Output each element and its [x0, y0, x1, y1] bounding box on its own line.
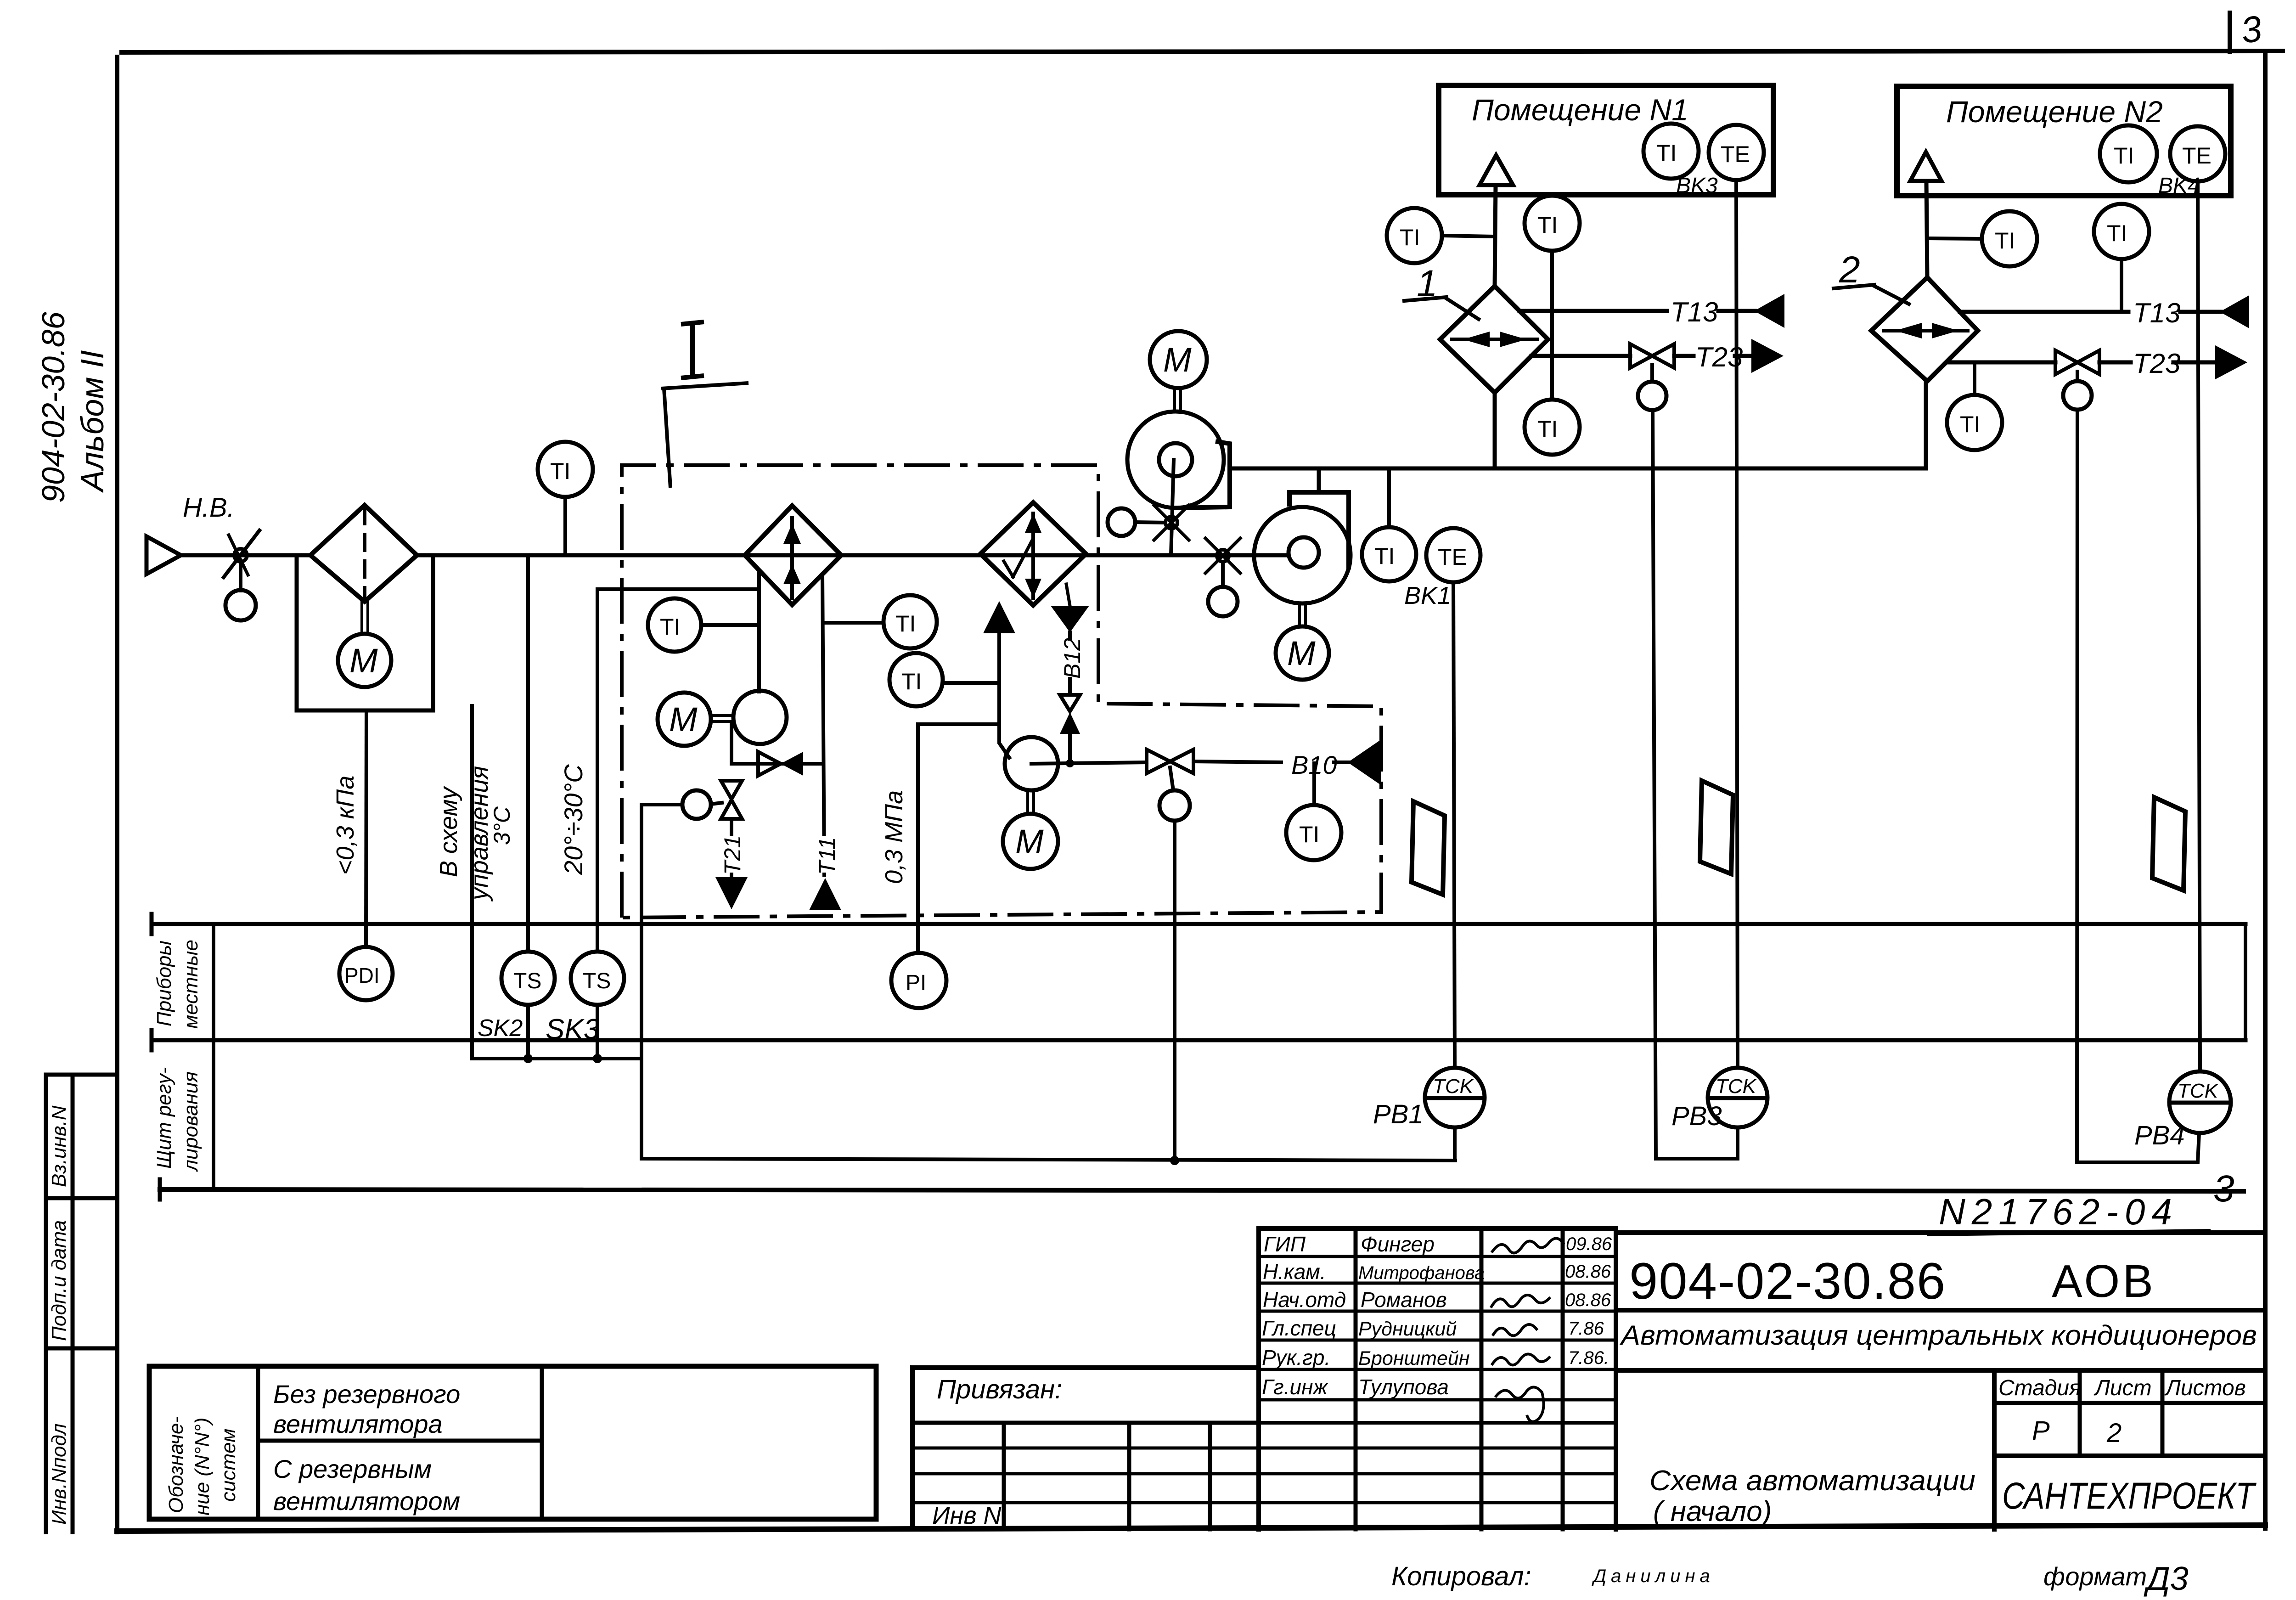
- svg-text:вентилятора: вентилятора: [273, 1409, 443, 1438]
- svg-text:20°÷30°C: 20°÷30°C: [559, 764, 588, 875]
- svg-text:Вз.инв.N: Вз.инв.N: [48, 1105, 70, 1187]
- svg-text:TI: TI: [1960, 411, 1980, 437]
- svg-text:08.86: 08.86: [1565, 1290, 1611, 1310]
- sampling parallelogram 2: [1700, 781, 1733, 874]
- svg-text:TS: TS: [513, 969, 541, 993]
- svg-text:лирования: лирования: [180, 1071, 202, 1172]
- svg-text:TCK: TCK: [1433, 1075, 1474, 1098]
- node T23 arrow unit1: [1751, 339, 1784, 373]
- wire return duct top line: [1230, 381, 1926, 468]
- wire BK3 sensor line: [1736, 180, 1738, 1068]
- svg-text:Привязан:: Привязан:: [937, 1375, 1062, 1404]
- svg-text:Подп.и дата: Подп.и дата: [48, 1220, 70, 1341]
- svg-text:Д3: Д3: [2144, 1561, 2189, 1597]
- svg-text:TI: TI: [550, 458, 570, 484]
- instrument TI supply air r1 lower: [1525, 400, 1580, 455]
- svg-text:Стадия: Стадия: [1998, 1376, 2081, 1400]
- unit I boundary dash-dot: [622, 465, 1381, 918]
- instrument TE room2: [2170, 126, 2225, 181]
- instrument PI: [891, 953, 946, 1008]
- instrument TI supply air r1 upper: [1525, 196, 1580, 251]
- svg-text:SK2: SK2: [478, 1015, 523, 1042]
- signature table: [1256, 1228, 1261, 1529]
- svg-text:Лист: Лист: [2093, 1376, 2152, 1400]
- right title block: [1616, 1230, 2265, 1235]
- valve T23-2 actuator circle: [2076, 372, 2079, 381]
- instrument TI room2: [2100, 125, 2157, 182]
- svg-text:09.86: 09.86: [1566, 1234, 1612, 1254]
- svg-text:T11: T11: [814, 837, 840, 875]
- svg-text:T13: T13: [2133, 298, 2180, 328]
- svg-text:TI: TI: [1995, 228, 2015, 254]
- svg-text:TCK: TCK: [2178, 1080, 2219, 1102]
- svg-text:местные: местные: [180, 940, 202, 1029]
- svg-text:Копировал:: Копировал:: [1391, 1561, 1531, 1591]
- band label divider: [212, 924, 215, 1189]
- svg-text:TI: TI: [901, 669, 922, 694]
- wire to control circuit: [472, 706, 642, 1059]
- damper spray symbol on duct: [1217, 550, 1229, 562]
- table обозначение систем: [149, 1366, 876, 1519]
- instrument TS SK2: [501, 952, 555, 1005]
- wire SK2 sensor line: [526, 555, 530, 952]
- valve B10: [1147, 749, 1170, 773]
- heat exchanger (air heater) diamond: [745, 506, 841, 605]
- node T13 arrow unit2: [2220, 295, 2249, 328]
- svg-text:TI: TI: [2114, 143, 2134, 169]
- svg-text:<0,3 кПа: <0,3 кПа: [332, 776, 359, 875]
- wire T21 line: [730, 819, 733, 877]
- svg-text:Данилина: Данилина: [1592, 1566, 1715, 1586]
- svg-text:TI: TI: [1299, 822, 1319, 847]
- svg-text:M: M: [1287, 634, 1316, 672]
- pump P1 with motor: [733, 691, 787, 744]
- filter box: [297, 555, 433, 710]
- svg-text:904-02-30.86: 904-02-30.86: [35, 311, 71, 503]
- svg-text:TI: TI: [1400, 225, 1420, 250]
- svg-text:3°C: 3°C: [489, 806, 515, 845]
- node B10 funnel: [1348, 739, 1381, 785]
- svg-text:Схема автоматизации: Схема автоматизации: [1649, 1465, 1975, 1497]
- svg-text:Без резервного: Без резервного: [273, 1380, 460, 1408]
- label T11: [810, 836, 838, 873]
- svg-text:систем: систем: [217, 1429, 240, 1502]
- table привязан: [912, 1368, 1259, 1529]
- svg-text:Фингер: Фингер: [1361, 1232, 1435, 1256]
- band line приборы местные top: [152, 922, 2245, 926]
- svg-text:С резервным: С резервным: [273, 1454, 432, 1483]
- instrument TE BK1: [1426, 528, 1480, 582]
- svg-text:2: 2: [1839, 249, 1860, 291]
- svg-text:T13: T13: [1671, 297, 1718, 327]
- controller ТСК РВ4: [2169, 1071, 2231, 1133]
- valve T23 unit1: [1630, 344, 1652, 368]
- return fan with motor: [1150, 331, 1207, 388]
- svg-text:Инв.Nподл: Инв.Nподл: [48, 1424, 70, 1525]
- svg-text:Автоматизация центральных конд: Автоматизация центральных кондиционеров: [1620, 1320, 2257, 1351]
- instrument PDI: [339, 947, 393, 1000]
- band line bottom: [160, 1189, 2244, 1191]
- wire PDI sense line: [366, 710, 366, 947]
- instrument TI room1: [1643, 124, 1699, 179]
- svg-text:АОВ: АОВ: [2052, 1256, 2156, 1307]
- valve T23 actuator circle: [1650, 365, 1654, 382]
- svg-text:3: 3: [2213, 1168, 2234, 1210]
- svg-text:TE: TE: [1721, 141, 1750, 167]
- svg-text:Гл.спец: Гл.спец: [1262, 1316, 1336, 1340]
- svg-text:Митрофанова: Митрофанова: [1358, 1263, 1485, 1283]
- svg-text:BK4: BK4: [2158, 174, 2200, 198]
- wire BK1 sensor line: [1453, 582, 1455, 1068]
- svg-text:Щит регу-: Щит регу-: [153, 1067, 175, 1169]
- svg-text:TS: TS: [583, 969, 611, 993]
- valve three-way on heater line: [732, 762, 822, 766]
- wire SK3 sensor line: [597, 589, 757, 952]
- svg-text:PB4: PB4: [2134, 1121, 2185, 1150]
- svg-text:Н.кам.: Н.кам.: [1263, 1260, 1326, 1284]
- svg-text:ние (N°N°): ние (N°N°): [191, 1418, 214, 1515]
- band line middle: [152, 1038, 2245, 1042]
- pipe heater return: [822, 575, 824, 875]
- wire return fan drop: [1171, 460, 1174, 555]
- svg-text:2: 2: [2106, 1418, 2122, 1448]
- svg-text:Рудницкий: Рудницкий: [1358, 1318, 1457, 1340]
- wire T13 line unit2: [1960, 310, 2128, 314]
- instrument TE room1: [1709, 125, 1764, 180]
- frame border right: [2263, 56, 2268, 1528]
- damper spray symbol upper: [1165, 517, 1177, 529]
- svg-text:Приборы: Приборы: [153, 941, 175, 1026]
- svg-text:Р: Р: [2032, 1416, 2050, 1446]
- wire PB3 valve link: [1653, 410, 1738, 1159]
- svg-text:08.86: 08.86: [1565, 1262, 1611, 1282]
- svg-text:N21762-04: N21762-04: [1939, 1191, 2178, 1232]
- node T21 arrow: [715, 877, 748, 909]
- svg-text:7.86: 7.86: [1568, 1318, 1604, 1339]
- svg-text:Н.В.: Н.В.: [183, 493, 235, 523]
- filter motor shaft: [360, 602, 363, 634]
- instrument TI supply air r2: [2094, 204, 2149, 259]
- svg-text:Инв N: Инв N: [932, 1502, 1002, 1529]
- svg-text:Тулупова: Тулупова: [1358, 1375, 1449, 1399]
- instrument TI after exch2: [1982, 211, 2037, 266]
- wire B10 line: [1193, 761, 1281, 762]
- instrument TI cooler water: [889, 653, 943, 706]
- wire T13 line unit1: [1519, 309, 1667, 313]
- controller ТСК РВ3: [1708, 1068, 1767, 1127]
- svg-text:Бронштейн: Бронштейн: [1358, 1347, 1469, 1369]
- frame border bottom: [117, 1525, 2265, 1531]
- pipe cooler supply: [999, 633, 1009, 758]
- label I with leader: [681, 322, 704, 324]
- svg-text:TI: TI: [2107, 220, 2127, 246]
- svg-text:PB3: PB3: [1671, 1101, 1722, 1131]
- valve T23 unit2: [2055, 350, 2077, 374]
- svg-text:Листов: Листов: [2164, 1376, 2246, 1400]
- label T21: [716, 836, 744, 873]
- wire PB4 valve link: [2077, 410, 2199, 1162]
- svg-text:BK3: BK3: [1676, 174, 1718, 198]
- svg-text:Гг.инж: Гг.инж: [1262, 1375, 1328, 1399]
- heat exchanger 2 diamond: [1871, 277, 1978, 381]
- svg-text:формат: формат: [2043, 1562, 2147, 1591]
- wire T23 line unit1: [1531, 354, 1630, 358]
- frame border left: [115, 57, 119, 1532]
- svg-text:PB1: PB1: [1373, 1099, 1424, 1129]
- svg-text:TI: TI: [1656, 140, 1677, 166]
- svg-text:TCK: TCK: [1716, 1075, 1757, 1098]
- frame border top: [122, 51, 2283, 52]
- wire PI sense: [918, 724, 999, 953]
- room box Помещение N1: [1439, 85, 1773, 195]
- sheet number tick top right: [2228, 13, 2232, 51]
- instrument TI heater water: [884, 595, 937, 648]
- wire pump drain down: [730, 723, 733, 764]
- svg-text:ГИП: ГИП: [1264, 1232, 1306, 1256]
- instrument TI heater air: [648, 598, 701, 652]
- wire pump discharge: [1031, 762, 1147, 764]
- svg-text:вентилятором: вентилятором: [273, 1487, 460, 1515]
- svg-text:7.86.: 7.86.: [1568, 1348, 1609, 1368]
- sampling parallelogram 3: [2152, 797, 2185, 890]
- wire B12 branch: [1066, 584, 1070, 606]
- svg-text:TI: TI: [1374, 543, 1395, 569]
- pump P2 with motor: [1005, 737, 1058, 790]
- svg-text:M: M: [1015, 823, 1044, 861]
- svg-text:M: M: [349, 642, 378, 680]
- svg-text:BK1: BK1: [1404, 582, 1451, 609]
- instrument TS SK3: [571, 952, 624, 1005]
- instrument TI fan outlet: [1362, 527, 1416, 581]
- intake triangle: [146, 536, 181, 574]
- valve T21 with handwheel: [721, 781, 742, 799]
- svg-text:Альбом II: Альбом II: [74, 350, 110, 493]
- filter F1 diamond: [310, 505, 417, 602]
- svg-text:Нач.отд: Нач.отд: [1263, 1288, 1346, 1312]
- instrument TI return duct: [1312, 763, 1316, 805]
- damper on intake with handwheel: [224, 530, 259, 577]
- svg-text:САНТЕХПРОЕКТ: САНТЕХПРОЕКТ: [2002, 1475, 2257, 1517]
- sampling parallelogram 1: [1412, 801, 1445, 895]
- svg-text:TI: TI: [660, 614, 680, 640]
- room box Помещение N2: [1897, 86, 2231, 196]
- controller ТСК РВ1: [1425, 1068, 1485, 1127]
- node cooler supply arrow: [983, 601, 1015, 633]
- svg-text:( начало): ( начало): [1653, 1496, 1772, 1527]
- node T11 arrow: [809, 878, 841, 910]
- heat exchanger 1 diamond: [1440, 286, 1548, 393]
- instrument TI duct inlet: [538, 442, 593, 497]
- wire RB1 valve link: [642, 805, 1455, 1161]
- svg-text:PI: PI: [906, 971, 926, 995]
- svg-text:Обозначе-: Обозначе-: [165, 1416, 187, 1513]
- wire main supply duct line: [181, 553, 310, 558]
- svg-text:T21: T21: [720, 835, 745, 875]
- node T23 arrow unit2: [2215, 345, 2247, 379]
- svg-text:TI: TI: [895, 611, 916, 637]
- svg-text:Помещение N1: Помещение N1: [1472, 93, 1688, 127]
- instrument TI outside room1: [1387, 208, 1442, 263]
- svg-text:904-02-30.86: 904-02-30.86: [1629, 1252, 1946, 1310]
- svg-text:Романов: Романов: [1361, 1288, 1447, 1312]
- svg-text:TI: TI: [1537, 416, 1558, 442]
- pipe heater supply: [757, 571, 761, 692]
- wire BK4 sensor line: [2198, 181, 2200, 1071]
- motor M filter: [338, 634, 391, 687]
- wire T23 line unit2: [1947, 361, 2055, 365]
- node T13 arrow unit1: [1754, 294, 1784, 328]
- svg-text:В схему: В схему: [435, 786, 462, 877]
- svg-text:0,3 МПа: 0,3 МПа: [880, 790, 908, 884]
- left stamp column lines: [44, 1075, 48, 1532]
- svg-text:B12: B12: [1059, 638, 1085, 679]
- supply air triangle room2: [1910, 152, 1941, 181]
- svg-text:M: M: [1163, 341, 1192, 379]
- svg-text:TI: TI: [1537, 212, 1558, 238]
- supply fan with motor: [1254, 507, 1351, 603]
- svg-text:Рук.гр.: Рук.гр.: [1262, 1346, 1330, 1369]
- instrument TI return r2: [1947, 395, 2002, 450]
- svg-text:PDI: PDI: [344, 963, 380, 987]
- heat exchanger (cooler) diamond: [980, 502, 1086, 605]
- svg-text:TE: TE: [1438, 544, 1467, 570]
- svg-text:TE: TE: [2182, 143, 2212, 169]
- supply air triangle room1: [1480, 155, 1513, 185]
- svg-text:M: M: [669, 700, 698, 738]
